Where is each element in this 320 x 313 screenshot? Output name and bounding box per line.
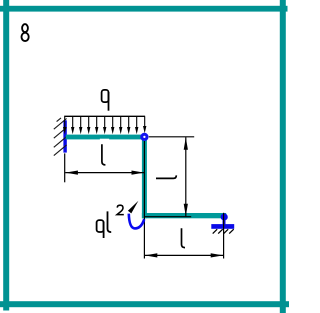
wall hatching of fixed support — [54, 118, 67, 156]
dimension extension line right through support — [223, 213, 225, 259]
distributed load arrows — [63, 117, 146, 135]
frame border left bar — [3, 0, 9, 311]
moment arc blue — [129, 214, 144, 229]
dimension extension line top of vertical span — [149, 136, 194, 138]
column vertical member — [142, 135, 147, 219]
dimension line bottom span l — [145, 253, 224, 257]
label l bottom span — [182, 228, 186, 247]
label q of distributed load — [102, 90, 109, 111]
dimension line top span l — [65, 171, 144, 175]
dimension line vertical span l — [184, 137, 188, 216]
frame border top bar — [0, 6, 288, 12]
frame border right bar — [280, 0, 286, 313]
frame border bottom bar — [0, 301, 289, 307]
label box gap artifact in top beam — [100, 139, 109, 141]
roller support ball — [221, 213, 228, 220]
dimension extension line from top node down through column — [143, 141, 145, 259]
label l top span — [102, 144, 106, 165]
dimension extension line bottom of vertical span — [145, 216, 191, 218]
moment label ql2 — [97, 205, 124, 238]
label l vertical span rotated — [156, 175, 176, 178]
label 8 problem number — [22, 24, 29, 41]
roller support hatching — [213, 229, 234, 233]
beam bottom horizontal member — [142, 213, 226, 218]
distributed load q top line — [64, 115, 145, 117]
dimension extension line left of top span — [64, 153, 66, 182]
moment arrowhead — [128, 201, 138, 214]
roller support base bar — [211, 224, 234, 229]
fixed support wall bar blue — [63, 120, 66, 152]
node hinge circle at top corner — [142, 134, 147, 139]
beam top horizontal member — [66, 135, 147, 140]
roller support stem — [223, 220, 226, 225]
